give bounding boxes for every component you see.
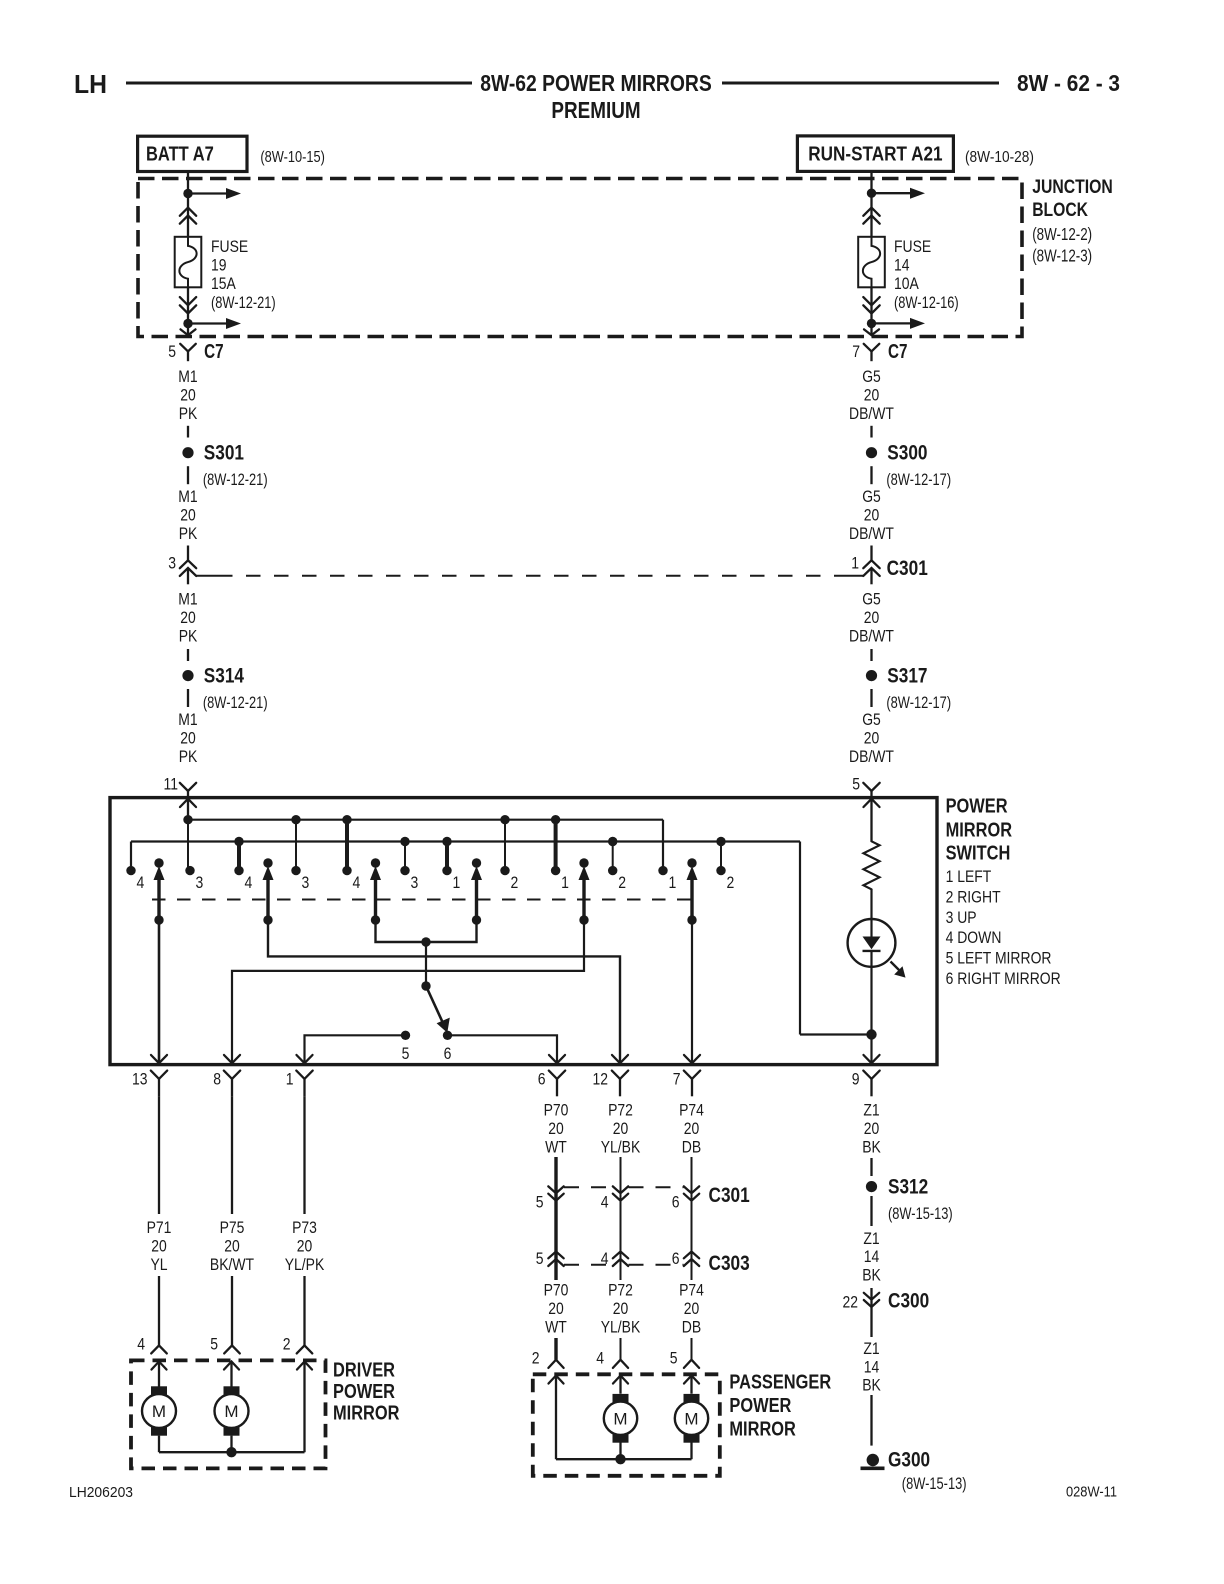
svg-text:RUN-START A21: RUN-START A21	[808, 144, 942, 166]
svg-text:M1: M1	[178, 710, 197, 729]
svg-text:8: 8	[213, 1070, 221, 1089]
wire mover2 to pin 12	[268, 920, 620, 1062]
passenger mirror entry arrowhead pin 5	[684, 1376, 699, 1384]
contact drop x721 (label 2)	[720, 842, 722, 871]
driver mirror entry arrowhead pin 5	[224, 1362, 239, 1370]
connector C301 tie line dashed	[196, 575, 218, 577]
splice S301	[182, 447, 193, 458]
svg-text:19: 19	[211, 256, 227, 275]
wire from BATT A7 into junction block	[187, 172, 189, 194]
contact drop x405 (label 3)	[404, 842, 406, 871]
wire P72 segment to C301	[620, 1157, 622, 1201]
pin 12 connector half symbol	[612, 1071, 628, 1079]
svg-text:(8W-12-21): (8W-12-21)	[203, 693, 268, 712]
svg-text:2: 2	[511, 873, 519, 892]
svg-text:BK: BK	[862, 1265, 881, 1284]
rail 1 junction dot x347	[342, 815, 351, 824]
svg-text:(8W-12-16): (8W-12-16)	[894, 293, 959, 312]
svg-text:11: 11	[164, 775, 179, 794]
svg-text:(8W-10-28): (8W-10-28)	[965, 149, 1034, 166]
pin 9 exit arrowhead	[864, 1055, 880, 1063]
svg-text:DB: DB	[682, 1318, 701, 1337]
LED diode bar	[863, 950, 881, 952]
wiper arm arrow to contact 6	[426, 986, 443, 1022]
wire G5 below S300	[870, 466, 872, 484]
pin 5 connector half symbol	[863, 783, 879, 791]
svg-text:DB/WT: DB/WT	[849, 747, 894, 766]
connector C301 female half on P72	[613, 1186, 628, 1193]
svg-text:2: 2	[283, 1335, 291, 1354]
switch contact 3 at x296	[291, 866, 300, 875]
svg-text:5: 5	[210, 1335, 218, 1354]
junction node center of U link	[421, 937, 430, 946]
junction node fuse 14 output	[867, 319, 876, 328]
splice S312	[866, 1181, 877, 1192]
svg-text:5: 5	[536, 1249, 544, 1268]
pin 1 exit arrowhead	[297, 1055, 313, 1063]
svg-text:10A: 10A	[894, 274, 919, 293]
contact drop x505 (label 2)	[504, 820, 506, 871]
wire mover6 to pin 7	[691, 920, 693, 1062]
rail 1 end drop x663 (label 1)	[662, 820, 664, 871]
svg-text:LH206203: LH206203	[69, 1484, 133, 1501]
switch mover arrow x476.5	[472, 858, 481, 867]
connector C7 right half symbol	[864, 344, 880, 352]
passenger mirror motor M1 (up/down)	[613, 1394, 629, 1404]
svg-text:20: 20	[180, 608, 196, 627]
wire mover1 to pin 13	[158, 920, 161, 1062]
pin 9 connector half symbol	[863, 1071, 879, 1079]
switch contact 3 at x405	[400, 866, 409, 875]
switch contact 6	[443, 1031, 452, 1040]
svg-text:20: 20	[613, 1119, 629, 1138]
connector chevron into driver mirror pin 4	[151, 1345, 167, 1353]
svg-text:20: 20	[548, 1119, 564, 1138]
svg-text:DB/WT: DB/WT	[849, 627, 894, 646]
driver power mirror dashed outline	[131, 1360, 326, 1468]
connector chevron into driver mirror pin 5	[224, 1345, 240, 1353]
svg-text:P72: P72	[608, 1100, 633, 1119]
wire driver motor M2 return	[230, 1436, 232, 1453]
svg-text:P71: P71	[147, 1218, 172, 1237]
switch contact 2 at x721	[716, 866, 725, 875]
svg-text:5 LEFT MIRROR: 5 LEFT MIRROR	[946, 949, 1052, 968]
wire Z1 to ground	[870, 1395, 872, 1446]
svg-text:FUSE: FUSE	[894, 237, 931, 256]
svg-text:M: M	[684, 1409, 698, 1428]
connector C303 male half on P72	[613, 1252, 628, 1259]
svg-text:S300: S300	[887, 442, 927, 465]
driver mirror motor M2 (left/right)	[224, 1386, 240, 1396]
svg-text:DB: DB	[682, 1138, 701, 1157]
wire M1 segment to S314	[187, 649, 189, 661]
wire driver mirror common return	[159, 1451, 305, 1453]
connector C7 exit arrowhead at block edge	[181, 329, 196, 335]
svg-text:1: 1	[851, 554, 859, 573]
connector C303 male half on P74	[684, 1252, 699, 1259]
svg-text:(8W-10-15): (8W-10-15)	[260, 149, 325, 166]
svg-text:4: 4	[137, 1335, 145, 1354]
connector C300 female half	[864, 1293, 879, 1300]
connector chevron into passenger mirror on P70	[548, 1360, 563, 1368]
wire P71 upper segment	[158, 1096, 160, 1214]
svg-text:12: 12	[593, 1070, 609, 1089]
svg-text:MIRROR: MIRROR	[333, 1403, 400, 1425]
svg-text:6: 6	[672, 1193, 680, 1212]
svg-text:5: 5	[168, 342, 176, 361]
pin 11 entry arrowhead	[180, 799, 196, 807]
pin 7 connector half symbol	[684, 1071, 700, 1079]
switch contact 4 at x239	[234, 866, 243, 875]
svg-text:5: 5	[852, 775, 860, 794]
svg-text:(8W-12-3): (8W-12-3)	[1032, 246, 1092, 266]
svg-text:P74: P74	[679, 1280, 704, 1299]
svg-text:4: 4	[601, 1193, 609, 1212]
svg-text:PK: PK	[179, 524, 198, 543]
junction node on BATT feed	[183, 189, 192, 198]
pin 13 exit arrowhead	[151, 1055, 167, 1063]
wire P75 lower segment	[231, 1276, 233, 1345]
svg-text:(8W-12-21): (8W-12-21)	[203, 470, 268, 489]
connector chevron into passenger mirror on P72	[613, 1360, 628, 1368]
svg-text:PREMIUM: PREMIUM	[551, 97, 640, 123]
splice S300	[866, 447, 877, 458]
wire fuse 14 to output node	[870, 287, 872, 323]
wire Z1 segment to S312	[870, 1158, 872, 1176]
contact drop x239 thick (label 4)	[237, 842, 241, 871]
power mirror switch outline	[110, 798, 937, 1065]
svg-text:C301: C301	[887, 557, 928, 580]
svg-text:PK: PK	[179, 627, 198, 646]
connector C301 right shaft	[870, 568, 872, 584]
node BATT A7 box	[138, 136, 247, 171]
rail 2 junction dot x721	[716, 837, 725, 846]
svg-text:13: 13	[132, 1070, 148, 1089]
switch bus rail 1	[188, 819, 663, 821]
wire G5 below S317	[870, 689, 872, 707]
rail 1 junction dot x188	[183, 815, 192, 824]
bus arrow right from fuse 14 output	[872, 322, 912, 324]
svg-text:BLOCK: BLOCK	[1032, 199, 1088, 221]
svg-text:7: 7	[673, 1070, 681, 1089]
svg-text:P70: P70	[544, 1280, 569, 1299]
svg-text:20: 20	[864, 386, 880, 405]
svg-text:5: 5	[402, 1044, 410, 1063]
wire P72 C301 to C303	[620, 1201, 622, 1252]
connector double chevron up (BATT feed)	[180, 208, 196, 216]
svg-text:FUSE: FUSE	[211, 237, 248, 256]
wire mover5 to pin 8	[232, 920, 584, 1062]
wire contact 6 to pin 6	[448, 1035, 558, 1062]
svg-text:(8W-15-13): (8W-15-13)	[888, 1204, 953, 1223]
connector chevron into passenger mirror on P74	[684, 1360, 699, 1368]
junction node passenger mirror common	[615, 1454, 625, 1464]
svg-text:YL/BK: YL/BK	[601, 1318, 641, 1337]
wire P72 segment to passenger mirror	[620, 1338, 622, 1360]
svg-text:S314: S314	[204, 664, 244, 687]
svg-text:JUNCTION: JUNCTION	[1032, 176, 1113, 198]
wire M1 stub above C301	[187, 546, 189, 561]
wire RUN-START node to fuse 14	[870, 193, 872, 237]
wire BATT node to fuse 19	[187, 194, 189, 237]
wire from RUN-START A21 into junction block	[870, 171, 872, 193]
wire P74 segment to C301	[691, 1157, 693, 1201]
header rule left	[126, 82, 472, 85]
svg-text:Z1: Z1	[863, 1100, 879, 1119]
node RUN-START A21 box	[797, 136, 953, 172]
wire P70 segment to passenger mirror	[554, 1338, 557, 1360]
svg-text:C303: C303	[709, 1252, 750, 1275]
junction node fuse 19 output	[183, 319, 192, 328]
switch contact 3 at x190	[185, 866, 194, 875]
pin 1 connector half symbol	[296, 1071, 312, 1079]
switch contact 2 at x612.7	[608, 866, 617, 875]
rail 2 junction dot x447	[442, 837, 451, 846]
pin 6 connector half symbol	[549, 1071, 565, 1079]
svg-text:6: 6	[672, 1249, 680, 1268]
passenger mirror entry arrowhead pin 4	[613, 1376, 628, 1384]
svg-text:(8W-12-21): (8W-12-21)	[211, 293, 276, 312]
wire P74 below C303	[691, 1252, 693, 1281]
svg-text:20: 20	[548, 1299, 564, 1318]
svg-text:YL: YL	[150, 1255, 167, 1274]
LED light arrow	[891, 962, 900, 971]
svg-text:3: 3	[302, 873, 310, 892]
svg-text:S312: S312	[888, 1175, 928, 1198]
pin 8 exit arrowhead	[224, 1055, 240, 1063]
wire P72 below C303	[620, 1252, 622, 1281]
connector C303 tie dashes	[564, 1264, 613, 1266]
svg-text:P72: P72	[608, 1280, 633, 1299]
svg-text:20: 20	[684, 1119, 700, 1138]
pin 7 exit arrowhead	[684, 1055, 700, 1063]
contact drop x555.6 thick (label 1)	[554, 820, 558, 871]
svg-text:2: 2	[532, 1349, 540, 1368]
pin 13 connector half symbol	[151, 1071, 167, 1079]
svg-text:G300: G300	[888, 1449, 930, 1472]
switch contact 4 at x131	[126, 866, 135, 875]
svg-text:WT: WT	[545, 1318, 567, 1337]
svg-text:6: 6	[444, 1044, 452, 1063]
svg-text:POWER: POWER	[729, 1395, 791, 1417]
svg-text:M1: M1	[178, 487, 197, 506]
contact drop x447 thick (label 1)	[445, 842, 449, 871]
pin 8 connector half symbol	[224, 1071, 240, 1079]
svg-text:20: 20	[180, 729, 196, 748]
wire to junction block edge (right)	[870, 323, 872, 335]
svg-text:14: 14	[894, 256, 910, 275]
svg-text:028W-11: 028W-11	[1066, 1484, 1117, 1501]
wire passenger motor M1 return	[619, 1443, 621, 1460]
svg-text:PK: PK	[179, 747, 198, 766]
svg-text:S301: S301	[204, 442, 244, 465]
switch mover arrow x692	[687, 858, 696, 867]
wire P71 lower segment	[158, 1276, 160, 1345]
svg-text:POWER: POWER	[333, 1381, 395, 1403]
svg-text:MIRROR: MIRROR	[729, 1419, 796, 1441]
connector C7 exit arrowhead at block edge (right)	[864, 329, 879, 335]
svg-text:4: 4	[245, 873, 253, 892]
svg-text:BK: BK	[862, 1138, 881, 1157]
wire P73 upper segment	[303, 1096, 305, 1214]
svg-text:20: 20	[864, 729, 880, 748]
svg-text:1: 1	[561, 873, 569, 892]
switch mover arrow x375.5	[371, 858, 380, 867]
svg-text:8W-62 POWER MIRRORS: 8W-62 POWER MIRRORS	[480, 70, 712, 96]
svg-text:20: 20	[297, 1237, 313, 1256]
svg-text:G5: G5	[862, 487, 881, 506]
svg-text:3: 3	[411, 873, 419, 892]
svg-text:(8W-12-2): (8W-12-2)	[1032, 224, 1092, 244]
wire P75 upper segment	[231, 1096, 233, 1214]
connector C301 tie dashes	[564, 1186, 613, 1188]
bus arrow right from RUN-START node	[872, 192, 912, 194]
wire to junction block edge	[187, 324, 189, 336]
wire resistor to LED	[870, 889, 872, 936]
wire G5 stub above C301	[870, 546, 872, 561]
svg-text:M1: M1	[178, 367, 197, 386]
wire mover3/4 U link	[376, 920, 477, 942]
svg-text:4: 4	[596, 1349, 604, 1368]
connector double chevron down below fuse 19	[180, 297, 196, 305]
svg-text:M1: M1	[178, 590, 197, 609]
svg-text:20: 20	[864, 1119, 880, 1138]
svg-text:G5: G5	[862, 367, 881, 386]
bus arrow right from fuse 19 output	[188, 322, 227, 324]
svg-text:MIRROR: MIRROR	[946, 819, 1013, 841]
pin 11 connector half symbol	[180, 783, 196, 791]
pin 5 entry arrowhead	[864, 799, 880, 807]
svg-text:WT: WT	[545, 1138, 567, 1157]
svg-text:2: 2	[727, 873, 735, 892]
driver mirror entry arrowhead pin 4	[152, 1362, 167, 1370]
svg-text:14: 14	[864, 1357, 880, 1376]
rail 2 junction dot x612.7	[608, 837, 617, 846]
wire M1 below S301	[187, 466, 189, 484]
svg-text:20: 20	[180, 506, 196, 525]
svg-text:1 LEFT: 1 LEFT	[946, 867, 992, 886]
rail 2 junction dot x405	[400, 837, 409, 846]
svg-text:15A: 15A	[211, 274, 236, 293]
passenger mirror motor M2 (left/right)	[684, 1394, 700, 1404]
contact drop x296 (label 3)	[295, 820, 297, 871]
svg-text:2 RIGHT: 2 RIGHT	[946, 887, 1001, 906]
wire M1 below S314	[187, 689, 189, 707]
wire P74 segment to passenger mirror	[691, 1338, 693, 1360]
svg-text:BK/WT: BK/WT	[210, 1255, 254, 1274]
connector C301 female half on P70	[548, 1186, 563, 1193]
svg-text:14: 14	[864, 1247, 880, 1266]
wire G5 segment to S300	[870, 426, 872, 438]
rail 1 junction dot x555.6	[551, 815, 560, 824]
wire passenger mirror common return	[556, 1458, 692, 1460]
LED diode triangle	[863, 937, 881, 950]
junction block U1 dashed outline	[138, 179, 1022, 337]
wire P70 segment to C301	[554, 1157, 557, 1201]
svg-text:YL/PK: YL/PK	[285, 1255, 325, 1274]
driver mirror motor M1 (up/down)	[151, 1386, 167, 1396]
fuse 14 10A	[858, 237, 885, 287]
rail 2 right drop to LED node	[799, 842, 801, 1035]
svg-text:(8W-12-17): (8W-12-17)	[886, 470, 951, 489]
wire G5 segment to S317	[870, 649, 872, 661]
connector double chevron down below fuse 14	[863, 297, 879, 305]
svg-text:BK: BK	[862, 1376, 881, 1395]
svg-text:G5: G5	[862, 590, 881, 609]
wiper pivot node	[421, 981, 430, 990]
svg-text:DB/WT: DB/WT	[849, 404, 894, 423]
connector C7 left half symbol	[180, 344, 196, 352]
wire fuse 19 to output node	[187, 287, 189, 323]
svg-text:PASSENGER: PASSENGER	[729, 1371, 831, 1393]
wire M1 segment to S301	[187, 426, 189, 438]
svg-text:POWER: POWER	[946, 795, 1008, 817]
svg-text:6 RIGHT MIRROR: 6 RIGHT MIRROR	[946, 969, 1061, 988]
wire P70 below C303	[554, 1252, 557, 1281]
connector chevron into driver mirror pin 2	[297, 1345, 313, 1353]
wire contact 5 to pin 1	[305, 1035, 406, 1062]
svg-text:C7: C7	[204, 341, 224, 363]
svg-text:20: 20	[180, 386, 196, 405]
svg-text:3: 3	[196, 873, 204, 892]
passenger mirror entry arrowhead pin 2	[549, 1376, 564, 1384]
svg-text:4: 4	[353, 873, 361, 892]
svg-text:P74: P74	[679, 1100, 704, 1119]
resistor R1 zigzag	[864, 841, 880, 889]
wire Z1 below C300	[870, 1307, 872, 1337]
svg-text:Z1: Z1	[863, 1229, 879, 1248]
junction node on RUN-START feed	[867, 189, 876, 198]
connector C303 male half on P70	[548, 1252, 563, 1259]
junction node LED/rail2 return	[866, 1029, 876, 1039]
svg-text:YL/BK: YL/BK	[601, 1138, 641, 1157]
svg-text:20: 20	[864, 608, 880, 627]
svg-text:8W - 62 - 3: 8W - 62 - 3	[1017, 70, 1120, 96]
svg-text:3 UP: 3 UP	[946, 908, 977, 927]
switch bus rail 2	[131, 840, 800, 842]
svg-text:P70: P70	[544, 1100, 569, 1119]
svg-text:20: 20	[864, 506, 880, 525]
svg-text:SWITCH: SWITCH	[946, 842, 1011, 864]
svg-text:3: 3	[168, 554, 176, 573]
svg-text:20: 20	[151, 1237, 167, 1256]
driver mirror entry arrowhead pin 2	[297, 1362, 312, 1370]
connector C301 left shaft	[187, 568, 189, 584]
switch contact 1 at x447	[442, 866, 451, 875]
junction node driver mirror common	[226, 1447, 236, 1457]
svg-text:1: 1	[453, 873, 461, 892]
svg-text:2: 2	[618, 873, 626, 892]
splice S317	[866, 670, 877, 681]
contact drop x612.7 (label 2)	[612, 842, 614, 871]
ground G300 symbol	[867, 1454, 879, 1466]
switch contact 4 at x347	[342, 866, 351, 875]
splice S314	[182, 670, 193, 681]
wire P73 lower segment	[303, 1276, 305, 1345]
switch contact 1 at x663	[658, 866, 667, 875]
wire Z1 below S312	[870, 1196, 872, 1226]
pin 6 exit arrowhead	[549, 1055, 565, 1063]
svg-text:5: 5	[536, 1193, 544, 1212]
connector C301 female half on P74	[684, 1186, 699, 1193]
svg-text:6: 6	[538, 1070, 546, 1089]
svg-text:P73: P73	[292, 1218, 317, 1237]
wire LED to pin 9	[870, 951, 872, 1062]
svg-text:7: 7	[852, 342, 860, 361]
switch contact 1 at x555.6	[551, 866, 560, 875]
wire passenger motor M2 return	[690, 1443, 692, 1460]
rail 1 junction dot x296	[291, 815, 300, 824]
